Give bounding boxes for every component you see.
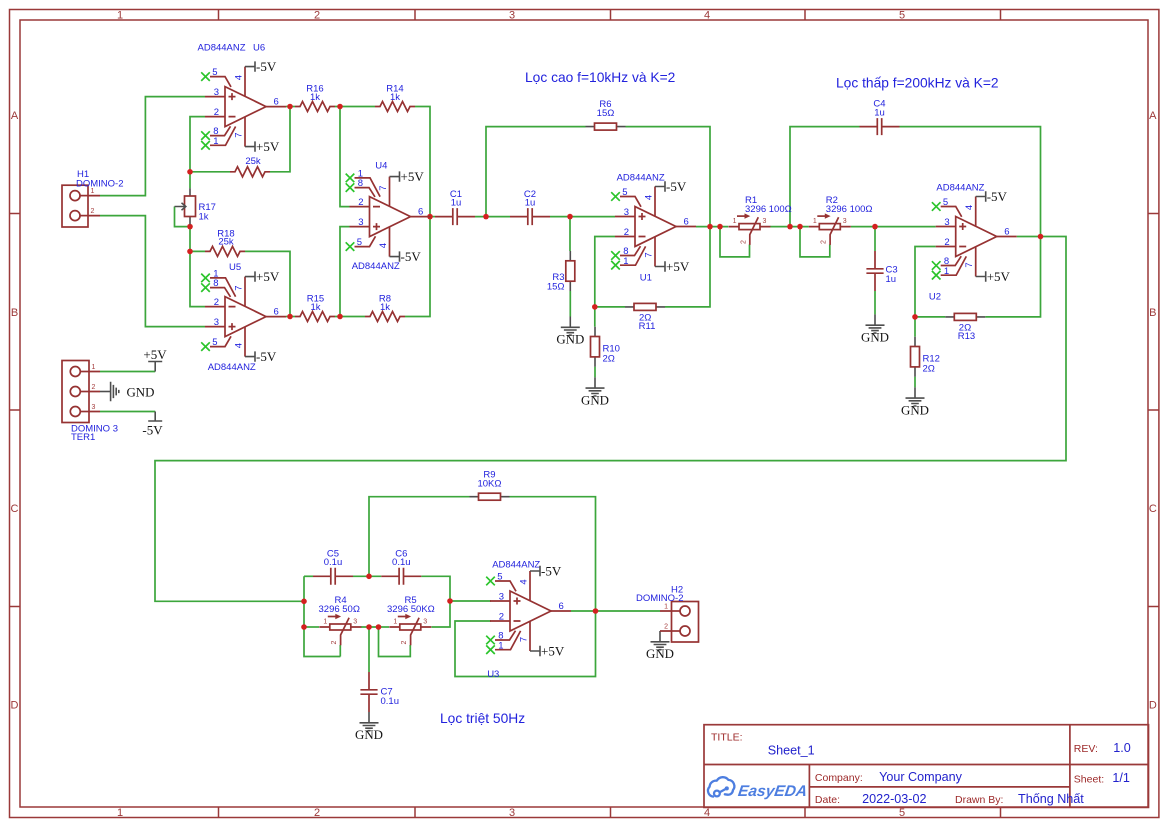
junction U3 out (593, 608, 599, 614)
svg-text:4: 4 (704, 10, 710, 22)
resistor R12 2Ω (911, 337, 940, 377)
wire R2 wiper loop (800, 227, 830, 257)
svg-text:U1: U1 (640, 272, 652, 283)
wire R12 top (914, 317, 916, 337)
junction U4 out (427, 214, 433, 220)
resistor 25k U6 feedback (230, 156, 270, 177)
wire 25k to R17 node (190, 171, 230, 173)
ground below C7 (355, 712, 383, 742)
junction U5 out (287, 314, 293, 320)
wire R9 left vertical (369, 497, 470, 577)
svg-text:2: 2 (91, 208, 95, 215)
wire R3 bottom to GND (569, 291, 571, 317)
svg-text:Company:: Company: (815, 772, 863, 784)
ground below C3 (861, 314, 889, 344)
svg-text:U2: U2 (929, 292, 941, 303)
wire C3 bottom to GND (874, 291, 876, 314)
power flag +5V U4 pin7 (390, 169, 425, 184)
wire C5 to C6 (353, 575, 381, 577)
junction U2 out (1038, 234, 1044, 240)
potentiometer R5 3296 50KΩ (387, 595, 435, 645)
svg-text:1k: 1k (380, 302, 390, 313)
svg-text:REV:: REV: (1074, 743, 1098, 755)
wire R3 top (569, 217, 571, 251)
power flag -5V TER1 pin3 (142, 412, 163, 438)
wire U3 pin3 (450, 600, 491, 602)
svg-text:+5V: +5V (143, 347, 167, 362)
wire H1.1 to U6 pin3 (100, 97, 205, 196)
op-amp U1 AD844ANZ (611, 173, 696, 284)
junction R18 left (187, 249, 193, 255)
svg-text:Drawn By:: Drawn By: (955, 794, 1003, 806)
wire U6 out to R16 (286, 106, 295, 108)
svg-text:TER1: TER1 (71, 432, 95, 443)
power flag +5V TER1 pin1 (143, 347, 167, 371)
svg-text:1: 1 (92, 364, 96, 371)
wire R8 right up to U4 out node (405, 217, 430, 317)
wire R15 to R8 (335, 316, 365, 318)
connector TER1 DOMINO 3 (62, 361, 118, 444)
wire TER1 pin1 to +5V (100, 371, 155, 373)
svg-text:1k: 1k (390, 92, 400, 103)
svg-text:15Ω: 15Ω (547, 282, 565, 293)
wire R5 wiper loop (379, 627, 411, 657)
resistor R13 2Ω (945, 313, 985, 342)
potentiometer R2 3296 100Ω (809, 195, 873, 245)
svg-text:1u: 1u (525, 197, 536, 208)
resistor R11 2Ω (625, 303, 665, 332)
connector H1 DOMINO-2 (62, 169, 124, 227)
svg-text:Sheet:: Sheet: (1074, 774, 1104, 786)
wire U3 out to H2 (571, 610, 660, 612)
wire R13 left (915, 316, 945, 318)
capacitor C2 1u (510, 189, 550, 225)
power flag -5V U2 pin4 (976, 189, 1008, 204)
wire C3 top branch (874, 227, 876, 251)
op-amp U5 AD844ANZ (201, 262, 286, 373)
wire filter box left edge (304, 576, 340, 656)
svg-text:DOMINO-2: DOMINO-2 (76, 178, 124, 189)
junction U1 pin2/R10 (592, 304, 598, 310)
power flag -5V U5 pin4 (245, 349, 277, 364)
svg-text:2: 2 (664, 624, 668, 631)
wire R12 bottom to GND (914, 377, 916, 388)
wire R17 bottom to R18 (190, 224, 205, 251)
power flag +5V U1 pin7 (655, 259, 690, 274)
wire caps row left (304, 575, 313, 577)
svg-text:10KΩ: 10KΩ (477, 479, 501, 490)
junction C5/C6 (366, 574, 372, 580)
power flag +5V U2 pin7 (976, 269, 1011, 284)
svg-text:0.1u: 0.1u (381, 696, 400, 707)
wire U6 feedback to 25k (270, 107, 290, 172)
svg-text:25k: 25k (245, 156, 261, 167)
svg-text:1.0: 1.0 (1113, 741, 1131, 755)
svg-text:A: A (1149, 110, 1157, 122)
svg-text:3296 50KΩ: 3296 50KΩ (387, 604, 435, 615)
svg-text:Date:: Date: (815, 794, 840, 806)
ground below R12 (901, 387, 929, 417)
svg-text:2Ω: 2Ω (923, 363, 935, 374)
resistor R8 1k (365, 294, 405, 322)
op-amp U6 AD844ANZ (198, 43, 287, 150)
svg-text:U3: U3 (487, 669, 499, 680)
svg-text:1u: 1u (886, 274, 897, 285)
svg-text:15Ω: 15Ω (597, 108, 615, 119)
svg-text:2Ω: 2Ω (603, 353, 615, 364)
potentiometer R17 1k (175, 188, 216, 224)
capacitor C6 0.1u (381, 549, 421, 585)
svg-text:U6: U6 (253, 43, 265, 54)
wire R18 down to U5 pin2 (190, 251, 205, 306)
svg-text:D: D (1149, 700, 1157, 712)
wire R4 pin1 (304, 626, 319, 628)
svg-text:R11: R11 (639, 321, 656, 332)
svg-text:25k: 25k (218, 237, 234, 248)
svg-text:5: 5 (899, 807, 905, 819)
wire U1 out to R1 (696, 226, 728, 228)
junction filter input (301, 599, 307, 605)
op-amp U3 AD844ANZ (486, 560, 571, 681)
svg-text:Thống Nhất: Thống Nhất (1018, 792, 1084, 806)
ground below R10 (581, 377, 609, 407)
resistor R14 1k (375, 84, 415, 112)
svg-text:D: D (11, 700, 19, 712)
svg-text:1u: 1u (451, 197, 462, 208)
power flag +5V U5 pin7 (245, 269, 280, 284)
wire U1 pin2 down to R10/R11 node (595, 237, 615, 307)
svg-text:3296 100Ω: 3296 100Ω (826, 204, 873, 215)
svg-text:3296 100Ω: 3296 100Ω (745, 204, 792, 215)
capacitor C7 0.1u (360, 672, 399, 712)
svg-text:1: 1 (117, 10, 123, 22)
svg-text:GND: GND (127, 385, 155, 399)
wire R18 right to U5 out (245, 251, 290, 316)
svg-text:R13: R13 (958, 331, 975, 342)
svg-text:U5: U5 (229, 262, 241, 273)
svg-text:0.1u: 0.1u (324, 557, 343, 568)
op-amp U4 AD844ANZ (346, 161, 431, 272)
svg-text:Your Company: Your Company (879, 770, 963, 784)
svg-text:AD844ANZ: AD844ANZ (208, 362, 256, 373)
wire U5 out to R15 (286, 316, 295, 318)
junction U1 out (707, 224, 713, 230)
svg-text:3: 3 (509, 807, 515, 819)
wire R17 top (189, 172, 191, 189)
ground below R3 (556, 317, 584, 347)
junction R1 loop (717, 224, 723, 230)
title block (704, 725, 1149, 808)
svg-text:1: 1 (117, 807, 123, 819)
wire C1 to C2 (475, 216, 510, 218)
wire R6 right down to U1 out and R11 (626, 127, 711, 307)
resistor R15 1k (295, 294, 335, 322)
junction C1/C2 (483, 214, 489, 220)
wire R10 top (594, 307, 596, 327)
junction C7 branch (366, 624, 372, 630)
potentiometer R1 3296 100Ω (729, 195, 792, 245)
resistor R10 2Ω (591, 327, 620, 367)
wire R4 wiper loop (339, 645, 341, 657)
connector H2 DOMINO-2 (636, 584, 699, 642)
svg-text:3296 50Ω: 3296 50Ω (319, 604, 360, 615)
wire R1/R2 node up to C4 (790, 127, 860, 227)
wire R17 wiper loop (175, 207, 191, 227)
junction R4 pin1 (301, 624, 307, 630)
svg-text:U4: U4 (375, 161, 387, 172)
svg-text:C: C (11, 503, 19, 515)
svg-text:Sheet_1: Sheet_1 (768, 743, 815, 757)
svg-text:3: 3 (92, 404, 96, 411)
svg-text:1k: 1k (310, 92, 320, 103)
junction R2 loop (797, 224, 803, 230)
wire C2 to U1 pin3 (550, 216, 615, 218)
power flag -5V U3 pin4 (530, 563, 562, 578)
svg-text:4: 4 (704, 807, 710, 819)
capacitor C3 1u (866, 251, 897, 291)
ground TER1 pin2 (100, 382, 154, 401)
power flag +5V U6 pin7 (245, 139, 280, 154)
svg-text:2: 2 (314, 10, 320, 22)
svg-text:AD844ANZ: AD844ANZ (492, 560, 540, 571)
junction R17 wiper (187, 224, 193, 230)
svg-text:2: 2 (92, 384, 96, 391)
svg-text:1/1: 1/1 (1112, 771, 1130, 785)
wire R1 wiper loop (720, 227, 750, 257)
svg-text:A: A (11, 110, 19, 122)
svg-text:Lọc cao f=10kHz và K=2: Lọc cao f=10kHz và K=2 (525, 70, 675, 85)
wire node to R5 pin1 (379, 626, 390, 628)
svg-text:Lọc triệt 50Hz: Lọc triệt 50Hz (440, 711, 525, 726)
junction U6 out (287, 104, 293, 110)
resistor R18 25k (205, 228, 245, 256)
capacitor C1 1u (435, 189, 475, 225)
svg-text:1k: 1k (199, 212, 209, 223)
wire R11 left (595, 306, 625, 308)
junction C3 branch (872, 224, 878, 230)
ground H2 pin2 (646, 631, 674, 661)
junction U3 pin3 (447, 598, 453, 604)
capacitor C5 0.1u (313, 549, 353, 585)
power flag -5V U6 pin4 (245, 59, 277, 74)
svg-text:AD844ANZ: AD844ANZ (936, 183, 984, 194)
power flag -5V U4 pin4 (390, 249, 422, 264)
svg-text:-5V: -5V (142, 423, 163, 438)
svg-text:DOMINO-2: DOMINO-2 (636, 593, 684, 604)
svg-text:C: C (1149, 503, 1157, 515)
wire U2 out long route to bottom filter (155, 237, 1066, 602)
wire R15/R8 node up to U4 pin3 (340, 227, 350, 317)
capacitor C4 1u (860, 99, 900, 136)
wire R4 pin3 to node (361, 626, 379, 628)
resistor R6 15Ω (586, 99, 626, 130)
wire R2 to U2 pin3 (851, 226, 936, 228)
wire R16 to R14 (335, 106, 375, 108)
potentiometer R4 3296 50Ω (319, 595, 362, 645)
wire TER1 pin3 to -5V (100, 411, 155, 413)
wire C7 branch (368, 627, 370, 672)
svg-text:1u: 1u (874, 108, 885, 119)
svg-text:B: B (1149, 307, 1156, 319)
svg-text:AD844ANZ: AD844ANZ (198, 43, 246, 54)
svg-text:3: 3 (509, 10, 515, 22)
wire R16/R14 node down to U4 pin2 (340, 107, 350, 207)
wire U6 pin2 down (190, 117, 205, 172)
wire R9 right vertical (510, 497, 596, 611)
svg-text:EasyEDA: EasyEDA (737, 783, 808, 800)
svg-text:5: 5 (899, 10, 905, 22)
wire H1.2 to U5 pin3 (100, 216, 205, 327)
svg-text:AD844ANZ: AD844ANZ (617, 173, 665, 184)
svg-text:2: 2 (314, 807, 320, 819)
power flag +5V U3 pin7 (530, 643, 565, 658)
EasyEDA logo (708, 777, 808, 800)
wire C1/C2 node up to R6 (486, 127, 586, 217)
wire U4 out to C1 (431, 216, 436, 218)
resistor R9 10KΩ (470, 470, 510, 501)
svg-text:B: B (11, 307, 18, 319)
svg-text:1k: 1k (310, 302, 320, 313)
power flag -5V U1 pin4 (655, 179, 687, 194)
wire U2 pin2 down to R12/R13 node (915, 247, 936, 317)
wire R14 to U4 out node (415, 107, 430, 217)
svg-text:TITLE:: TITLE: (711, 731, 743, 743)
svg-text:AD844ANZ: AD844ANZ (352, 261, 400, 272)
wire R1 to R2 (770, 226, 809, 228)
wire R10 bottom to GND (594, 367, 596, 378)
resistor R16 1k (295, 84, 335, 112)
wire C6 to right edge down (421, 576, 450, 627)
junction U2 pin2/R12 (912, 314, 918, 320)
wire C4 right down to U2 out and R13 (900, 127, 1041, 317)
junction R5 loop (376, 624, 382, 630)
svg-text:1: 1 (664, 604, 668, 611)
svg-text:0.1u: 0.1u (392, 557, 411, 568)
junction C2/R3 (567, 214, 573, 220)
resistor R3 15Ω (547, 251, 575, 293)
op-amp U2 AD844ANZ (929, 183, 1017, 303)
junction R15/R8 (337, 314, 343, 320)
svg-text:Lọc thấp f=200kHz và K=2: Lọc thấp f=200kHz và K=2 (836, 75, 999, 90)
junction R16/R14 (337, 104, 343, 110)
svg-text:2022-03-02: 2022-03-02 (862, 792, 926, 806)
junction 25k left (187, 169, 193, 175)
wire U3 pin2 feedback loop (455, 611, 596, 677)
junction R1/R2 (787, 224, 793, 230)
